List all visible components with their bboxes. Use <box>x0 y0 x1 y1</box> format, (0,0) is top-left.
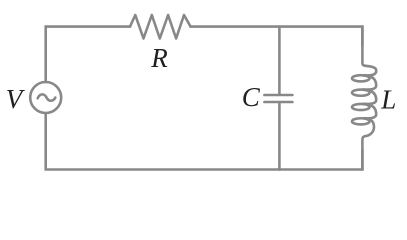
svg-text:R: R <box>150 43 168 73</box>
inductor L connector 1-2 <box>363 75 376 89</box>
inductor L top lead and entry hook <box>362 27 376 76</box>
wire capacitor branch upper <box>278 27 281 94</box>
inductor L ring 4 <box>352 118 370 124</box>
svg-text:C: C <box>242 82 261 112</box>
svg-text:V: V <box>6 84 26 114</box>
wire top-right segment <box>191 27 363 45</box>
wire top-left segment and left side down to source <box>46 27 130 82</box>
inductor L ring 3 <box>352 104 370 110</box>
capacitor C bottom plate <box>264 101 292 104</box>
resistor R <box>130 15 191 39</box>
wire left lower, bottom segment, right lower corner <box>46 113 363 170</box>
inductor L exit hook and bottom lead <box>362 118 374 169</box>
inductor L connector 3-4 <box>363 104 376 118</box>
source V circle <box>30 82 61 113</box>
source sine symbol <box>38 94 56 100</box>
wire capacitor branch lower <box>278 103 281 170</box>
inductor L connector 2-3 <box>363 90 376 104</box>
inductor L ring 2 <box>352 90 370 96</box>
inductor L ring 1 <box>352 75 370 81</box>
svg-text:L: L <box>380 85 396 115</box>
capacitor C top plate <box>264 94 292 97</box>
